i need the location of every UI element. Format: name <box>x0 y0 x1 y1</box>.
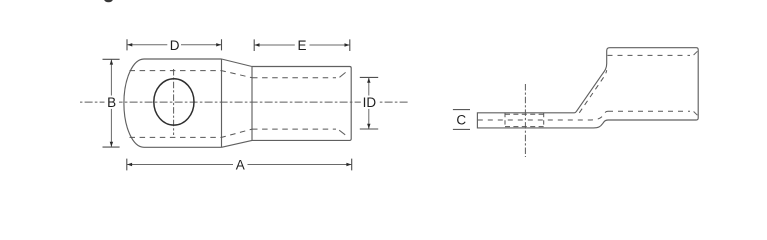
dimension ID arrows <box>367 78 370 129</box>
bolt hole (left view) <box>154 79 194 125</box>
taper to barrel (left view) <box>222 59 253 147</box>
hidden line bore top (left view) <box>252 77 336 79</box>
dimension D extension ticks <box>127 39 222 50</box>
hidden hole top edge (side view) <box>505 113 544 115</box>
hidden hole bottom edge (side view) <box>505 126 544 128</box>
label ID mask <box>361 96 378 109</box>
dimension A extension ticks <box>127 159 352 171</box>
dimension ID line <box>368 77 370 129</box>
svg-text:B: B <box>107 95 116 110</box>
cropped text descender (top edge) <box>104 0 113 2</box>
vertical centerline (side view) <box>524 84 526 157</box>
horizontal centerline (left view) <box>80 101 409 103</box>
hidden line palm top (left view) <box>130 71 253 78</box>
svg-text:D: D <box>170 38 180 53</box>
dimension E line <box>254 44 350 46</box>
chamfer top right (side view) <box>694 51 698 55</box>
dimension D arrows <box>127 43 221 46</box>
hidden bore bottom line (side view) <box>608 110 690 112</box>
svg-text:A: A <box>236 158 245 173</box>
dimension B extension ticks <box>103 59 120 147</box>
dimension D line <box>127 44 222 46</box>
hidden hole edge right (side view) <box>543 113 545 128</box>
hidden line palm bottom (left view) <box>130 129 253 137</box>
chamfer bottom right (left view) <box>339 130 345 135</box>
dimension ID extension ticks <box>360 77 378 129</box>
dimension B line <box>110 59 112 147</box>
label B mask <box>105 96 120 109</box>
dimension A line <box>127 164 352 166</box>
dimension B arrows <box>110 60 113 147</box>
chamfer bottom right (side view) <box>694 112 698 116</box>
chamfer top right (left view) <box>340 72 346 77</box>
label C underline <box>453 128 470 130</box>
hidden inner wall diagonal (side view) <box>579 70 606 113</box>
hidden line bore bottom (left view) <box>252 128 336 130</box>
label C overline <box>453 109 470 111</box>
hidden mid line of palm (side view) <box>478 111 608 120</box>
hidden hole edge left (side view) <box>504 113 506 128</box>
vertical centerline through hole (left view) <box>173 69 175 135</box>
svg-text:E: E <box>297 38 306 53</box>
svg-text:ID: ID <box>363 95 377 110</box>
dimension E arrows <box>255 43 350 46</box>
svg-text:C: C <box>456 113 466 128</box>
barrel outline (left view) <box>252 67 351 141</box>
hidden bore top line (side view) <box>608 54 691 56</box>
side view outline <box>477 48 698 128</box>
lug palm outline (left view) <box>124 59 222 147</box>
dimension E extension ticks <box>254 39 350 51</box>
dimension A arrows <box>127 163 351 166</box>
